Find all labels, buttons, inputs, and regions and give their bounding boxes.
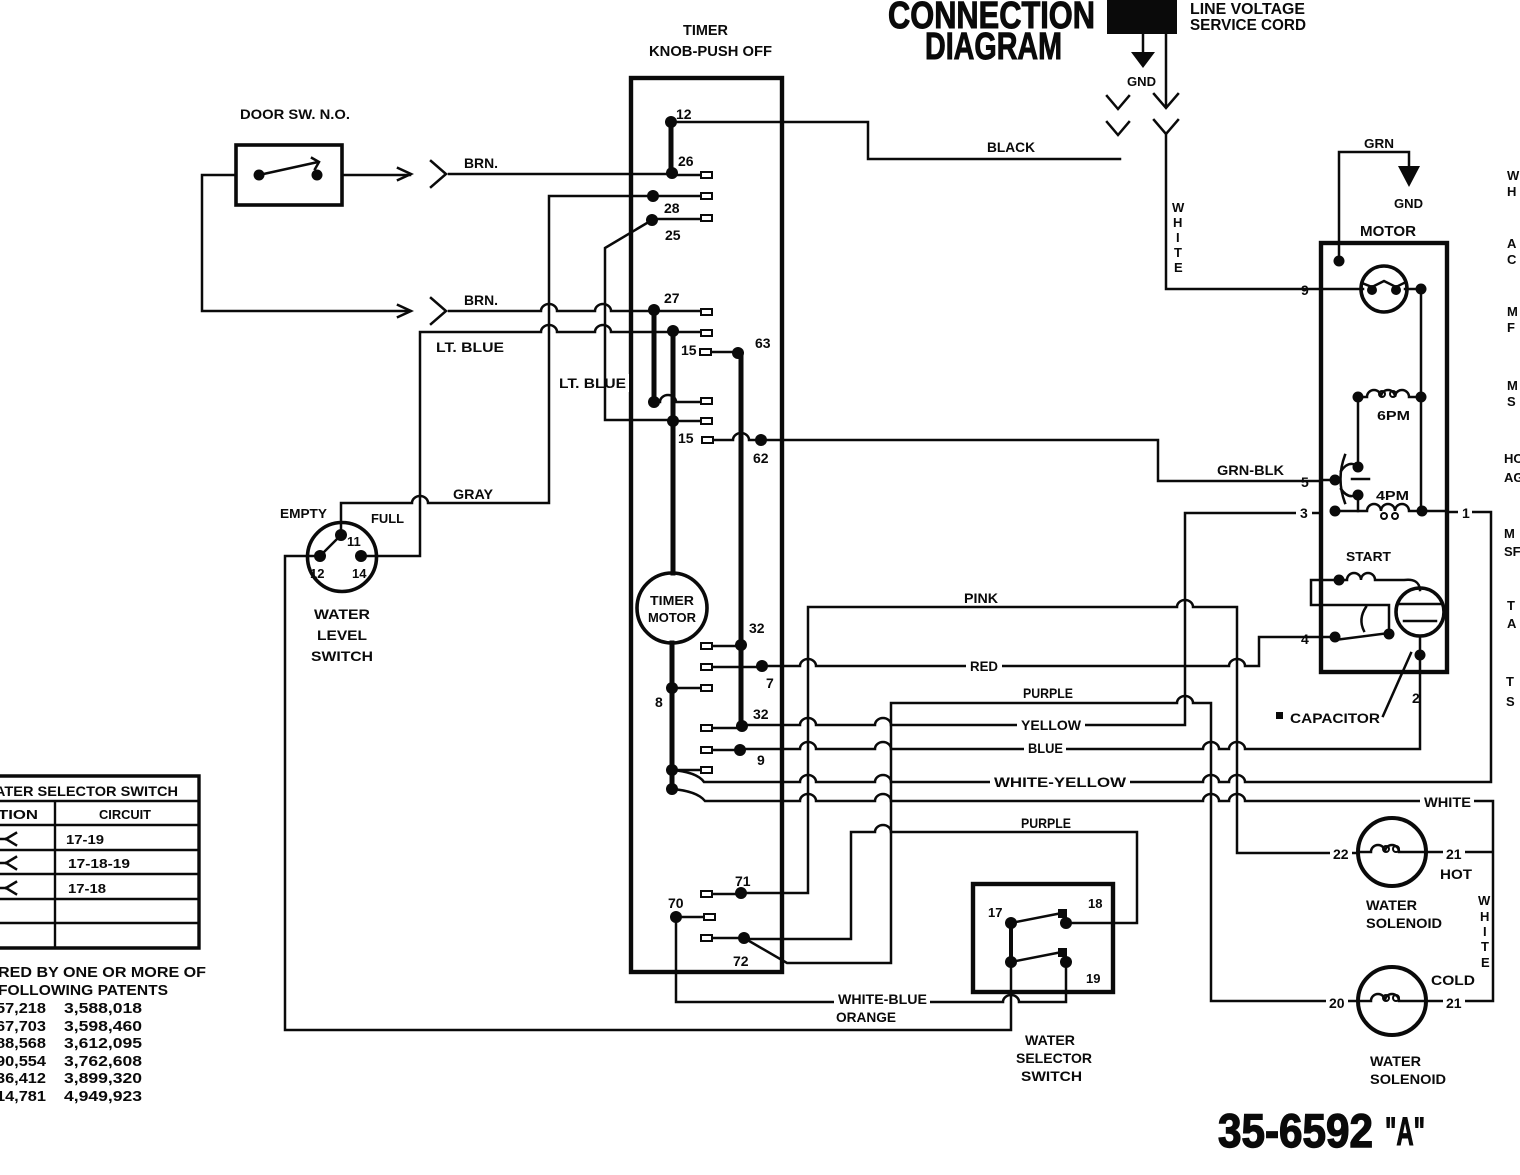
cold water solenoid — [1358, 967, 1426, 1035]
wire ORANGE from water level 12 to selector switch 17 — [285, 556, 1011, 1030]
svg-text:A: A — [1507, 236, 1517, 251]
svg-text:2: 2 — [1412, 690, 1420, 706]
svg-text:RED: RED — [970, 658, 998, 674]
svg-text:4,949,923: 4,949,923 — [64, 1088, 142, 1105]
svg-text:3: 3 — [1300, 505, 1308, 521]
svg-text:WATER: WATER — [1366, 897, 1417, 913]
svg-text:72: 72 — [733, 953, 749, 969]
svg-text:3,612,095: 3,612,095 — [64, 1035, 142, 1052]
svg-text:TIMER: TIMER — [683, 22, 728, 39]
timer terminal tab row 15a and link to 63 — [711, 351, 737, 354]
timer box — [631, 78, 782, 972]
svg-text:KNOB-PUSH OFF: KNOB-PUSH OFF — [649, 43, 772, 60]
svg-text:COLD: COLD — [1431, 972, 1475, 988]
svg-text:3,762,608: 3,762,608 — [64, 1053, 142, 1070]
label BLUE — [1024, 740, 1066, 756]
table row 1 — [0, 832, 104, 847]
junction dot right bus top — [1416, 284, 1427, 295]
label LT. BLUE center — [556, 374, 629, 392]
svg-text:20: 20 — [1329, 995, 1345, 1011]
svg-text:17-18-19: 17-18-19 — [68, 856, 130, 871]
svg-text:6PM: 6PM — [1377, 408, 1410, 423]
timer terminal tab row 28 — [653, 195, 701, 198]
service cord hot lead with connector chevrons — [1154, 34, 1178, 134]
svg-text:27: 27 — [664, 290, 680, 306]
ground symbol motor — [1394, 166, 1423, 211]
svg-text:FULL: FULL — [371, 511, 404, 526]
label ORANGE — [833, 1008, 899, 1025]
svg-text:DOOR SW. N.O.: DOOR SW. N.O. — [240, 106, 350, 122]
label WHITE-YELLOW — [990, 773, 1130, 790]
svg-text:CAPACITOR: CAPACITOR — [1290, 710, 1380, 726]
svg-text:WATER: WATER — [1025, 1032, 1075, 1048]
svg-text:LEVEL: LEVEL — [317, 627, 367, 643]
svg-text:M: M — [1507, 304, 1518, 319]
start coil — [1339, 573, 1420, 590]
svg-text:SOLENOID: SOLENOID — [1370, 1071, 1446, 1087]
svg-text:SELECTOR: SELECTOR — [1016, 1050, 1092, 1066]
patent numbers — [0, 1000, 142, 1105]
svg-text:32: 32 — [749, 620, 765, 636]
svg-text:MOTOR: MOTOR — [648, 610, 697, 625]
label 1 — [1458, 504, 1472, 521]
svg-text:4PM: 4PM — [1376, 488, 1409, 503]
timer terminal tab row 402 — [654, 395, 701, 402]
wire PINK timer 71 to hot solenoid 22 — [741, 600, 1358, 893]
label WHITE (vertical) — [1172, 200, 1185, 275]
timer terminal tab row 15b and wire 62 to motor 5 GRN-BLK — [712, 433, 1318, 481]
door switch DOOR SW. N.O. — [236, 145, 342, 205]
svg-text:71: 71 — [735, 873, 751, 889]
svg-text:AG: AG — [1504, 470, 1520, 485]
svg-text:START: START — [1346, 549, 1391, 564]
wire RED timer 7 to motor 4 — [762, 637, 1318, 666]
svg-text:I: I — [1483, 924, 1487, 939]
svg-text:RED BY ONE OR MORE OF: RED BY ONE OR MORE OF — [0, 964, 206, 981]
timer terminal tab row 25 — [655, 218, 701, 221]
label WATER SOLENOID cold — [1370, 1053, 1446, 1087]
wire terminal 4 — [1321, 636, 1335, 639]
svg-text:EMPTY: EMPTY — [280, 506, 327, 521]
svg-text:W: W — [1478, 893, 1491, 908]
svg-text:GND: GND — [1394, 196, 1423, 211]
svg-text:W: W — [1172, 200, 1185, 215]
svg-text:PURPLE: PURPLE — [1023, 685, 1073, 701]
label LINE VOLTAGE SERVICE CORD — [1190, 1, 1306, 34]
wire PURPLE timer 72 to cold solenoid 20 — [744, 696, 1358, 1001]
svg-text:63: 63 — [755, 335, 771, 351]
svg-text:GRAY: GRAY — [453, 486, 494, 502]
right edge cropped labels — [1504, 168, 1520, 709]
svg-text:PURPLE: PURPLE — [1021, 815, 1071, 831]
svg-text:WHITE-YELLOW: WHITE-YELLOW — [994, 774, 1127, 790]
label 3 — [1296, 504, 1312, 521]
svg-text:17: 17 — [988, 905, 1002, 920]
label CAPACITOR with leader — [1276, 653, 1411, 726]
label WATER SELECTOR SWITCH — [1016, 1032, 1092, 1084]
timer terminal tab row 8 — [672, 687, 701, 690]
svg-text:F: F — [1507, 320, 1515, 335]
timer internal thick bar to timer motor — [671, 331, 676, 573]
svg-text:GRN-BLK: GRN-BLK — [1217, 462, 1284, 478]
timer terminal tab row 27 — [654, 310, 701, 313]
hot water solenoid — [1358, 818, 1426, 886]
label 21 cold — [1443, 993, 1465, 1011]
start coil junction dot — [1334, 575, 1345, 586]
svg-text:BLUE: BLUE — [1028, 740, 1063, 756]
svg-text:BRN.: BRN. — [464, 292, 498, 308]
timer terminal tab row 32a — [712, 645, 741, 648]
label RED — [966, 658, 1002, 674]
title CONNECTION DIAGRAM — [888, 0, 1095, 68]
svg-text:11: 11 — [347, 534, 361, 549]
svg-text:S: S — [1507, 394, 1516, 409]
patent note — [0, 964, 206, 999]
speed selector contacts at 5 — [1330, 455, 1370, 511]
svg-text:YELLOW: YELLOW — [1021, 717, 1082, 733]
svg-text:36,412: 36,412 — [0, 1070, 46, 1087]
label WHITE — [1420, 793, 1474, 810]
svg-text:70: 70 — [668, 895, 684, 911]
svg-text:3,588,018: 3,588,018 — [64, 1000, 142, 1017]
timer terminal tab row 33 — [673, 331, 701, 334]
svg-text:21: 21 — [1446, 846, 1462, 862]
svg-text:18: 18 — [1088, 896, 1102, 911]
timer internal thick bar 63-32-32 — [739, 353, 744, 726]
junction dots 4PM — [1330, 506, 1428, 517]
wire BLACK from timer 12 to service cord prong — [671, 122, 1120, 159]
svg-text:HOT: HOT — [1440, 866, 1472, 882]
svg-text:H: H — [1507, 184, 1516, 199]
timer terminal tab row 26 — [672, 174, 701, 177]
svg-text:9: 9 — [757, 752, 765, 768]
svg-text:GRN: GRN — [1364, 136, 1394, 151]
svg-text:S: S — [1506, 694, 1515, 709]
svg-text:PINK: PINK — [964, 590, 998, 606]
label WHITE vertical right — [1478, 893, 1491, 970]
label WATER LEVEL SWITCH — [311, 606, 373, 664]
svg-text:FOLLOWING PATENTS: FOLLOWING PATENTS — [0, 982, 168, 999]
svg-text:BRN.: BRN. — [464, 155, 498, 171]
svg-text:25: 25 — [665, 227, 681, 243]
svg-text:C: C — [1507, 252, 1517, 267]
water selector switch box — [973, 884, 1113, 992]
svg-text:67,703: 67,703 — [0, 1018, 46, 1035]
timer terminal tab row 32b — [712, 727, 742, 730]
timer terminal tab row 71 — [712, 893, 741, 896]
svg-text:MOTOR: MOTOR — [1360, 223, 1416, 240]
svg-text:WHITE: WHITE — [1424, 794, 1471, 810]
wire GRN motor frame to ground — [1339, 152, 1409, 261]
svg-text:17-18: 17-18 — [68, 881, 106, 896]
label TIMER KNOB-PUSH OFF — [649, 22, 772, 60]
timer internal thick bar motor to white tap — [670, 643, 675, 789]
svg-text:SF: SF — [1504, 544, 1520, 559]
svg-text:21: 21 — [1446, 995, 1462, 1011]
timer internal thick bar 12-26 — [669, 122, 674, 173]
svg-text:H: H — [1173, 215, 1182, 230]
svg-text:14: 14 — [352, 566, 367, 581]
svg-text:1: 1 — [1462, 505, 1470, 521]
wire GRAY from water level 11 to timer 28 — [341, 196, 652, 535]
svg-text:"A": "A" — [1385, 1110, 1425, 1154]
svg-text:8: 8 — [655, 694, 663, 710]
wire terminal 5 — [1321, 479, 1335, 482]
motor frame junction dot — [1334, 256, 1345, 267]
svg-text:GND: GND — [1127, 74, 1156, 89]
timer terminal tab row 9 — [712, 749, 740, 752]
table row 3 — [0, 881, 106, 896]
svg-text:35-6592: 35-6592 — [1218, 1104, 1373, 1157]
table row 2 — [0, 856, 130, 871]
svg-text:LINE VOLTAGE: LINE VOLTAGE — [1190, 1, 1305, 18]
table column headers — [0, 807, 151, 822]
svg-text:E: E — [1174, 260, 1183, 275]
svg-text:T: T — [1506, 674, 1514, 689]
svg-text:15: 15 — [678, 430, 694, 446]
timer internal thick bar 27 down — [652, 310, 657, 402]
wire motor right bus — [1420, 289, 1423, 511]
svg-text:22: 22 — [1333, 846, 1349, 862]
svg-text:17-19: 17-19 — [66, 832, 104, 847]
wire BRN upper to timer 26 — [449, 173, 670, 176]
svg-text:4: 4 — [1301, 631, 1309, 647]
svg-text:T: T — [1481, 939, 1489, 954]
svg-text:SERVICE CORD: SERVICE CORD — [1190, 17, 1306, 34]
svg-text:19: 19 — [1086, 971, 1100, 986]
line voltage service cord block — [1107, 0, 1177, 34]
drawing number 35-6592 A — [1218, 1104, 1425, 1157]
wire YELLOW timer 32 to motor 3 — [742, 513, 1318, 725]
svg-text:WATER: WATER — [314, 606, 370, 622]
svg-text:T: T — [1507, 598, 1515, 613]
svg-text:3,899,320: 3,899,320 — [64, 1070, 142, 1087]
svg-text:T: T — [1174, 245, 1182, 260]
timer terminal tab row 70 — [676, 916, 704, 919]
wire WHITE-BLUE timer 70 to selector switch 19 — [676, 917, 1066, 1002]
wire LT. BLUE from water level 14 to timer — [361, 325, 672, 556]
svg-text:12: 12 — [676, 106, 692, 122]
water level switch — [308, 523, 377, 592]
svg-text:CIRCUIT: CIRCUIT — [99, 807, 151, 822]
svg-text:7: 7 — [766, 675, 774, 691]
svg-text:32: 32 — [753, 706, 769, 722]
wire 6PM left leg to speed contacts — [1357, 397, 1360, 467]
svg-text:WHITE-BLUE: WHITE-BLUE — [838, 991, 927, 1007]
timer terminal tab row 7 — [712, 666, 762, 669]
wire WHITE from service cord to motor 9 — [1166, 134, 1318, 289]
thermal protector — [1361, 266, 1407, 312]
svg-text:62: 62 — [753, 450, 769, 466]
svg-text:SWITCH: SWITCH — [311, 648, 373, 664]
svg-text:9: 9 — [1301, 282, 1309, 298]
svg-text:12: 12 — [310, 566, 324, 581]
label 22 — [1330, 844, 1352, 862]
svg-text:A: A — [1507, 616, 1517, 631]
svg-text:57,218: 57,218 — [0, 1000, 46, 1017]
wire door switch to upper BRN arrow — [342, 174, 410, 177]
ground arrow from service cord — [1127, 34, 1156, 89]
svg-text:H: H — [1480, 909, 1489, 924]
connector arrow upper BRN — [398, 161, 446, 187]
svg-text:26: 26 — [678, 153, 694, 169]
svg-text:SOLENOID: SOLENOID — [1366, 915, 1442, 931]
svg-text:E: E — [1481, 955, 1490, 970]
connector arrow lower BRN — [398, 298, 446, 324]
svg-text:M: M — [1507, 378, 1518, 393]
svg-text:WATER: WATER — [1370, 1053, 1421, 1069]
svg-text:TIMER: TIMER — [650, 593, 695, 608]
svg-text:ORANGE: ORANGE — [836, 1009, 896, 1025]
svg-text:M: M — [1504, 526, 1515, 541]
coil 6PM — [1358, 390, 1421, 397]
svg-text:5: 5 — [1301, 474, 1309, 490]
svg-text:90,554: 90,554 — [0, 1053, 47, 1070]
svg-text:3,598,460: 3,598,460 — [64, 1018, 142, 1035]
wire BLUE timer 9 to capacitor 2 — [740, 655, 1420, 749]
label 20 — [1326, 993, 1348, 1011]
selector contacts — [1005, 909, 1072, 968]
svg-text:TION: TION — [0, 807, 38, 822]
svg-text:88,568: 88,568 — [0, 1035, 46, 1052]
timer motor — [637, 573, 707, 643]
capacitor — [1396, 588, 1444, 661]
wire timer 25 internal link to terminal 15b row — [605, 220, 672, 420]
svg-text:HO: HO — [1504, 451, 1520, 466]
svg-text:W: W — [1507, 168, 1520, 183]
wire PURPLE timer 72 to selector switch 18 — [744, 825, 1137, 939]
junction dots 6PM — [1353, 392, 1427, 403]
svg-text:28: 28 — [664, 200, 680, 216]
svg-text:BLACK: BLACK — [987, 139, 1035, 155]
wire WHITE-YELLOW timer to motor 1 — [672, 512, 1491, 782]
timer terminal tab row 770 — [672, 769, 701, 772]
label YELLOW — [1017, 717, 1085, 733]
label WHITE-BLUE — [834, 990, 930, 1007]
wire WHITE timer to water solenoids 21 — [672, 789, 1493, 1001]
terminal 4 dot — [1330, 632, 1341, 643]
wire terminal 9 into thermal protector — [1321, 288, 1421, 291]
label WATER SOLENOID hot — [1366, 897, 1442, 931]
svg-text:SWITCH: SWITCH — [1021, 1068, 1082, 1084]
water selector switch table — [0, 776, 199, 948]
label 21 hot — [1443, 844, 1465, 862]
coil 4PM — [1335, 504, 1447, 519]
svg-text:WATER SELECTOR SWITCH: WATER SELECTOR SWITCH — [0, 783, 178, 799]
timer terminal tab row 72 — [712, 937, 744, 940]
wire BRN lower to timer 27 — [449, 304, 653, 311]
start switch linkage — [1311, 580, 1395, 640]
motor box — [1321, 243, 1447, 672]
svg-text:15: 15 — [681, 342, 697, 358]
svg-text:DIAGRAM: DIAGRAM — [925, 26, 1062, 68]
svg-text:I: I — [1176, 230, 1180, 245]
svg-text:LT. BLUE: LT. BLUE — [436, 339, 504, 355]
wire door switch left leg down to lower BRN arrow — [202, 175, 410, 311]
svg-text:14,781: 14,781 — [0, 1088, 46, 1105]
junction dots timer column — [646, 116, 768, 944]
neutral prong chevrons — [1107, 96, 1129, 135]
svg-text:LT. BLUE: LT. BLUE — [559, 375, 626, 391]
timer terminal tab row 421 — [673, 420, 701, 423]
